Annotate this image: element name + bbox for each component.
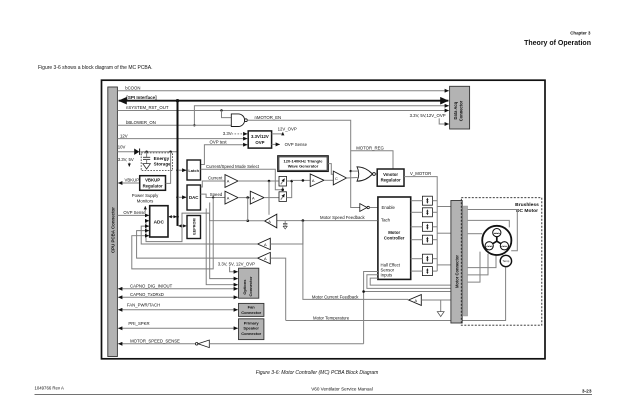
memory U8 EEPROM xyxy=(187,216,201,239)
svg-text:Power Supply: Power Supply xyxy=(132,193,159,198)
svg-text:A: A xyxy=(252,195,255,200)
wire hall sensor line 1 with speed sense tap xyxy=(362,272,450,344)
op-amp A4 error amp xyxy=(310,174,333,187)
driver Q1 phase driver 1 xyxy=(411,196,438,205)
connector J6 Motor Connector xyxy=(451,201,462,324)
regulator U4 VBKUP Regulator xyxy=(140,176,166,191)
svg-text:Brushless: Brushless xyxy=(515,202,539,208)
op-amp A3 speed second stage xyxy=(238,191,279,204)
svg-text:3.3V, 5V, 12V_OVP: 3.3V, 5V, 12V_OVP xyxy=(218,261,255,266)
node Motor Temperature xyxy=(286,267,506,320)
svg-text:A: A xyxy=(227,179,230,184)
node bBLOWER_ON xyxy=(117,120,231,125)
svg-text:Connector: Connector xyxy=(248,276,253,296)
wire OVP test xyxy=(201,140,248,165)
svg-text:Vmotor: Vmotor xyxy=(383,172,398,177)
svg-text:10V: 10V xyxy=(118,145,126,150)
motor M1 brushless dc motor symbol xyxy=(482,226,511,255)
node Current/Speed Mode Select xyxy=(201,164,282,190)
svg-text:VBKUP: VBKUP xyxy=(125,178,140,183)
driver Q4 phase driver 4 xyxy=(411,235,438,244)
svg-text:Monitors: Monitors xyxy=(137,199,153,204)
wire hall sensor line 3 xyxy=(370,278,450,285)
node OVP Sense output xyxy=(272,142,308,147)
svg-text:OVP Sense: OVP Sense xyxy=(123,210,146,215)
svg-text:Motor Temperature: Motor Temperature xyxy=(313,315,350,320)
converter U7 DAC xyxy=(187,185,201,210)
node 3.3V dashed into OVP xyxy=(223,131,248,136)
svg-text:Figure 3-6 shows a block diagr: Figure 3-6 shows a block diagram of the … xyxy=(38,65,153,71)
svg-text:VBKUP: VBKUP xyxy=(145,178,160,183)
svg-text:3.3V/12V: 3.3V/12V xyxy=(251,134,269,139)
svg-text:A: A xyxy=(268,219,271,224)
svg-text:A: A xyxy=(312,178,315,183)
connector J2 Options Connector xyxy=(239,268,259,298)
node Motor Speed Feedback xyxy=(277,215,378,222)
driver Q5 phase driver 5 xyxy=(411,254,438,263)
wire wave gen to comparator xyxy=(328,164,333,175)
op-amp A8 current sense xyxy=(409,295,451,306)
ground on current sense line xyxy=(437,300,444,317)
svg-text:1049766 Rev A: 1049766 Rev A xyxy=(35,386,65,391)
driver Q2 phase driver 2 xyxy=(411,208,438,217)
svg-text:Controller: Controller xyxy=(384,236,405,241)
svg-text:Enable: Enable xyxy=(382,205,396,210)
svg-text:Inputs: Inputs xyxy=(381,273,393,278)
node bCOON xyxy=(117,86,448,91)
gate U10 NOR xyxy=(351,167,377,181)
wire mux outputs join xyxy=(287,179,310,198)
controller U13 Motor Controller xyxy=(378,197,411,279)
op-amp A1 current xyxy=(225,175,238,188)
svg-text:12V: 12V xyxy=(120,133,128,138)
svg-text:Motor Connector: Motor Connector xyxy=(454,255,459,288)
connector J5 Data Acq Connector xyxy=(450,86,470,129)
op-amp A7 temperature to ADC xyxy=(137,231,286,321)
svg-text:Motor Current Feedback: Motor Current Feedback xyxy=(312,294,359,299)
svg-text:C: C xyxy=(335,176,338,181)
connector J4 Primary Speaker Connector xyxy=(239,319,264,340)
svg-text:Options: Options xyxy=(242,279,247,295)
svg-text:Tach: Tach xyxy=(381,218,391,223)
connector J1 CPU PCBA Connector xyxy=(108,87,118,357)
regulator U3 3.3V/12V OVP xyxy=(248,131,271,148)
bus SPI vertical xyxy=(176,101,179,226)
wire hall return 3 xyxy=(468,252,481,283)
converter U5 ADC xyxy=(150,206,168,237)
svg-text:CPU PCBA Connector: CPU PCBA Connector xyxy=(110,207,115,253)
connector J7 motor-side mating strip xyxy=(463,206,467,316)
op-amp A5 tach buffer xyxy=(246,198,276,228)
op-amp A2 speed xyxy=(225,191,238,204)
wire DAC area to options connector 2 xyxy=(206,209,238,285)
wire bus to EEPROM bidirectional xyxy=(178,225,186,227)
wire hall return 2 xyxy=(468,254,489,275)
regulator U11 Vmotor Regulator xyxy=(377,169,404,186)
svg-text:CAPNO_TxDRxD: CAPNO_TxDRxD xyxy=(130,292,164,297)
node Current xyxy=(201,176,225,187)
svg-text:EEPROM: EEPROM xyxy=(192,218,196,234)
svg-text:PRI_SPKR: PRI_SPKR xyxy=(128,321,149,326)
connector J3 Fan Connector xyxy=(239,303,264,316)
svg-text:Motor: Motor xyxy=(388,230,400,235)
svg-text:V_MOTOR: V_MOTOR xyxy=(410,171,431,176)
wire hall return 1 xyxy=(468,255,497,268)
svg-text:Temp: Temp xyxy=(502,259,509,263)
wire motor phase B xyxy=(468,220,510,227)
svg-text:Figure 3-6: Motor Controller (: Figure 3-6: Motor Controller (MC) PCBA B… xyxy=(256,370,379,376)
wire tach loop around EEPROM to ADC xyxy=(146,213,248,242)
block Brushless DC Motor (dashed) xyxy=(461,198,542,326)
node 3.3V 5V 12V_OVP to data acq xyxy=(410,113,449,124)
node 10V xyxy=(117,145,176,153)
svg-text:A: A xyxy=(227,195,230,200)
svg-text:ADC: ADC xyxy=(154,219,165,225)
svg-text:Data Acq: Data Acq xyxy=(453,101,458,119)
latch U6 xyxy=(187,160,201,180)
block Energy Storage (dashed) xyxy=(141,153,172,171)
wire hall sensor line 2 xyxy=(367,275,451,289)
svg-text:Regulator: Regulator xyxy=(143,183,163,188)
wire motor phase A xyxy=(468,210,518,251)
svg-text:3.3V: 3.3V xyxy=(223,131,232,136)
svg-text:DC Motor: DC Motor xyxy=(516,208,538,214)
comparator C1 xyxy=(333,171,357,185)
node nMOTOR_EN xyxy=(247,115,359,208)
svg-text:3-23: 3-23 xyxy=(582,388,592,394)
node 3.3V 5V stub xyxy=(118,157,134,167)
node VBKUP xyxy=(118,178,139,183)
wire nSYSTEM_RST to NAND input xyxy=(222,111,232,118)
svg-text:Chapter 3: Chapter 3 xyxy=(570,31,591,36)
svg-text:120-140KHz Triangle: 120-140KHz Triangle xyxy=(284,158,324,163)
driver Q3 phase driver 3 xyxy=(411,222,438,231)
svg-text:Current: Current xyxy=(208,176,223,181)
svg-text:MOTOR_REG: MOTOR_REG xyxy=(356,145,384,150)
ground below C1 xyxy=(143,164,151,169)
svg-text:3.3V, 5V: 3.3V, 5V xyxy=(118,157,134,162)
diagram outer frame xyxy=(102,80,546,359)
svg-text:Current/Speed Mode Select: Current/Speed Mode Select xyxy=(206,164,260,169)
svg-text:A: A xyxy=(264,242,267,247)
label Power Supply Monitors xyxy=(132,193,159,211)
footer rule xyxy=(35,394,593,396)
svg-text:Theory of Operation: Theory of Operation xyxy=(524,40,591,47)
wire mux control junction xyxy=(281,186,284,192)
svg-text:bCOON: bCOON xyxy=(125,86,140,91)
svg-text:OVP Sense: OVP Sense xyxy=(285,142,308,147)
op-amp A6 current feedback to ADC xyxy=(141,221,303,250)
wire speed tap to ADC xyxy=(132,196,214,269)
switch S1 mode mux upper xyxy=(279,176,287,186)
wire bBLOWER_ON branch to Data Acq xyxy=(193,106,449,127)
wire DAC area to options connector 1 xyxy=(210,203,238,279)
node PRI_SPKR xyxy=(118,321,238,328)
svg-text:A: A xyxy=(264,256,267,261)
svg-text:[SPI Interface]: [SPI Interface] xyxy=(126,95,157,100)
node MOTOR_SPEED_SENSE xyxy=(118,338,195,344)
node V_MOTOR xyxy=(404,171,437,271)
node MOTOR_REG xyxy=(351,145,393,168)
node Speed xyxy=(201,192,225,198)
bus SPI Interface xyxy=(119,95,449,103)
node 12V_OVP xyxy=(272,127,297,134)
node 12V xyxy=(117,133,247,138)
gate U2 NAND xyxy=(231,114,247,127)
wire 10V to VBKUP regulator xyxy=(166,152,171,184)
svg-text:CAPNO_DIG_IN/OUT: CAPNO_DIG_IN/OUT xyxy=(130,284,173,289)
svg-text:12V_OVP: 12V_OVP xyxy=(278,127,297,132)
node CAPNO_DIG_IN/OUT xyxy=(118,284,238,289)
svg-text:Storage: Storage xyxy=(154,162,172,167)
svg-text:Wave Generator: Wave Generator xyxy=(288,164,319,169)
svg-text:OVP: OVP xyxy=(255,140,264,145)
oscillator U9 120-140KHz Triangle Wave Generator xyxy=(278,156,328,172)
svg-text:Connector: Connector xyxy=(241,331,261,336)
node 3.3V 5V 12V_OVP to options xyxy=(218,261,255,271)
sensor RT1 temp sensor xyxy=(500,255,511,266)
svg-text:A: A xyxy=(415,298,418,303)
node FAN_PWR/TACH xyxy=(118,303,238,310)
node nSYSTEM_RST_OUT xyxy=(117,105,448,112)
buffer U14 speed sense inverter xyxy=(195,340,363,348)
buffer U12 enable (inverter) xyxy=(360,204,378,212)
wire bus to DAC xyxy=(178,196,186,198)
svg-text:3.3V, 5V,12V_OVP: 3.3V, 5V,12V_OVP xyxy=(410,113,446,118)
svg-text:Energy: Energy xyxy=(154,156,170,161)
wire A1 output to mux xyxy=(238,180,279,215)
capacitor C1 energy storage xyxy=(143,152,150,164)
driver Q6 phase driver 6 xyxy=(411,267,438,276)
svg-text:DAC: DAC xyxy=(189,195,199,200)
svg-text:Motor Speed Feedback: Motor Speed Feedback xyxy=(320,215,366,220)
wire phase pair outputs to motor connector xyxy=(437,207,450,265)
wire bus to Latch xyxy=(178,169,186,171)
wire ADC to bus bidirectional xyxy=(169,216,177,218)
svg-text:Latch: Latch xyxy=(188,168,199,173)
node OVP Sense to ADC xyxy=(117,210,149,216)
capacitor C2 on feedback line xyxy=(283,221,287,229)
node Motor Current Feedback xyxy=(303,221,408,300)
svg-text:nSYSTEM_RST_OUT: nSYSTEM_RST_OUT xyxy=(126,105,169,110)
svg-text:nMOTOR_EN: nMOTOR_EN xyxy=(255,115,282,120)
svg-text:FAN_PWR/TACH: FAN_PWR/TACH xyxy=(127,303,160,308)
svg-text:Speed: Speed xyxy=(210,192,223,197)
svg-text:MOTOR_SPEED_SENSE: MOTOR_SPEED_SENSE xyxy=(130,338,180,343)
svg-text:Connector: Connector xyxy=(241,310,261,315)
svg-text:V60 Ventilator Service Manual: V60 Ventilator Service Manual xyxy=(311,387,373,392)
node CAPNO_TxDRxD xyxy=(118,292,238,297)
switch S2 mode mux lower xyxy=(279,192,287,202)
svg-text:bBLOWER_ON: bBLOWER_ON xyxy=(126,120,156,125)
svg-text:OVP test: OVP test xyxy=(210,140,228,145)
svg-text:Regulator: Regulator xyxy=(381,178,401,183)
wire motor phase C xyxy=(468,233,483,235)
svg-text:Connector: Connector xyxy=(459,100,464,121)
diode D1 xyxy=(134,149,139,155)
